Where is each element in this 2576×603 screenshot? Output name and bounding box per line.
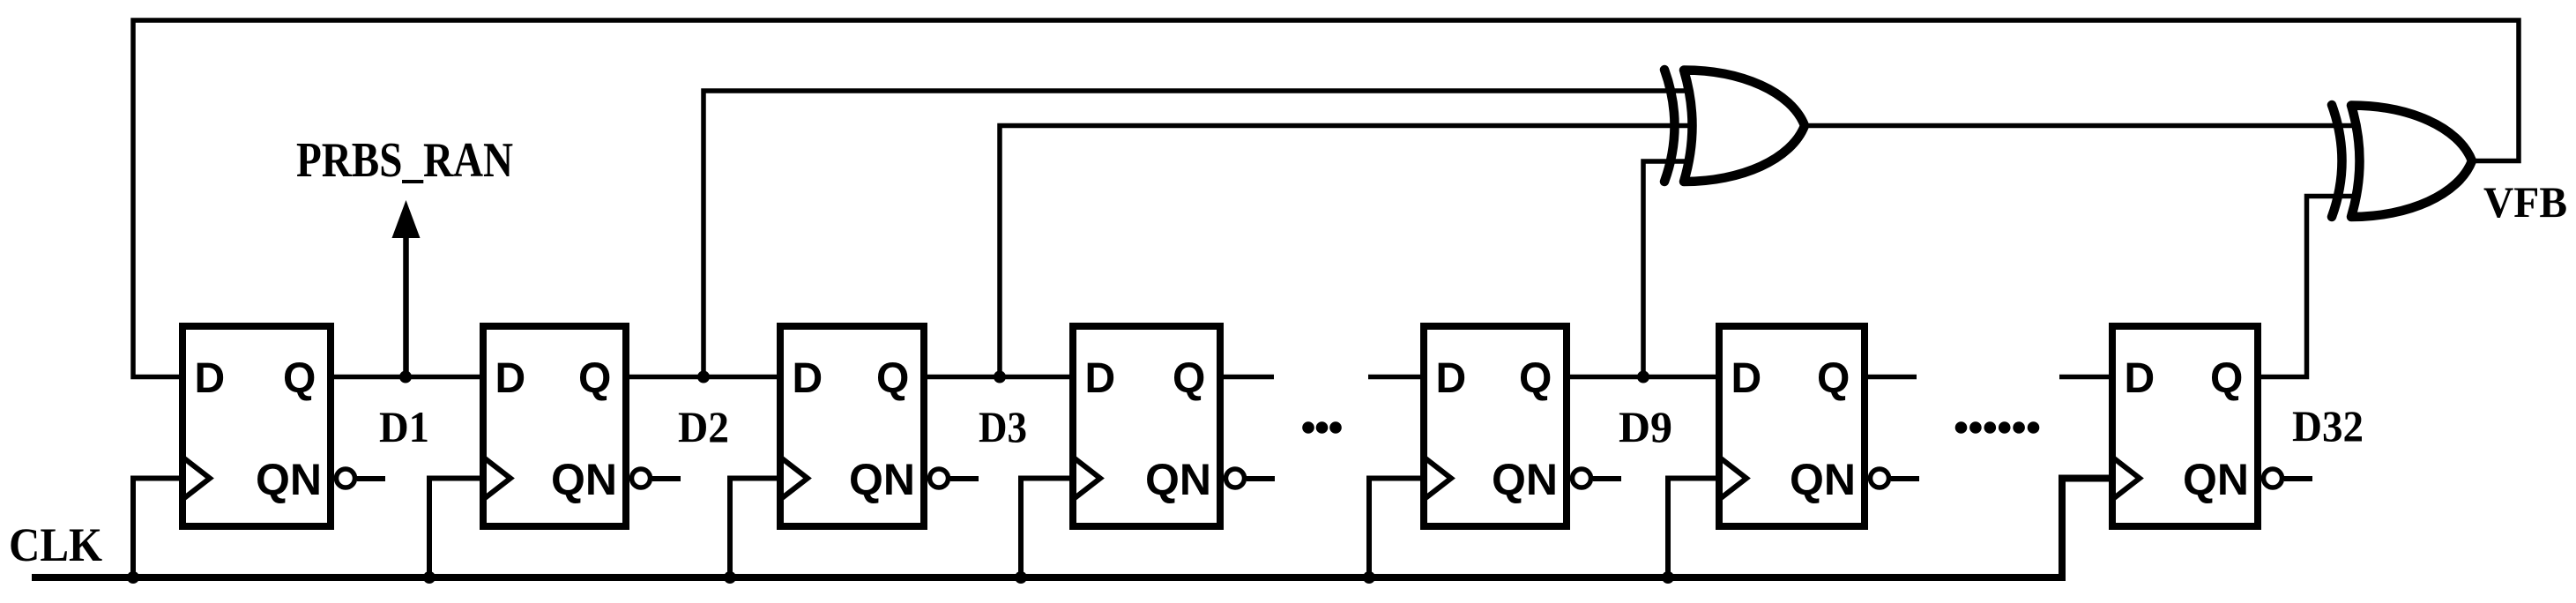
wire: FF7 Q up to XOR2 lower input (net D32): [2258, 197, 2364, 377]
XOR gate U1 body: [1684, 71, 1805, 182]
wire: node D3 tap up to XOR1 input 2: [1000, 126, 1701, 377]
wire: CLK branch to FF6 clock: [1668, 479, 1721, 578]
wire: CLK branch to FF5 clock: [1369, 479, 1426, 578]
wire: node D9 tap up to XOR1 input 3: [1643, 161, 1696, 377]
svg-text:QN: QN: [551, 455, 617, 504]
FF5 QN output stub: [1593, 476, 1621, 481]
svg-text:VFB: VFB: [2483, 177, 2567, 227]
XOR gate U1 input double-arc: [1664, 70, 1675, 182]
wire: XOR1 output to XOR2 upper input: [1801, 123, 2364, 129]
svg-text:D1: D1: [379, 402, 429, 451]
svg-text:D: D: [495, 355, 526, 402]
junction dot CLK junction FF4: [1015, 571, 1027, 584]
wire: FF1 Q to FF2 D (node D1): [331, 375, 483, 380]
D flip-flop FF1: [182, 326, 385, 526]
svg-text:D: D: [195, 355, 226, 402]
XOR gate U2 body: [2351, 106, 2472, 218]
D flip-flop FF4: [1073, 326, 1275, 526]
D flip-flop FF6: [1719, 326, 1919, 526]
svg-text:CLK: CLK: [9, 518, 102, 571]
wire: CLK bus along the bottom, turning up into FF7 clock: [32, 479, 2114, 578]
FF6 QN inversion bubble: [1871, 469, 1889, 488]
svg-text:PRBS_RAN: PRBS_RAN: [296, 133, 513, 188]
wire: CLK branch to FF4 clock: [1021, 479, 1075, 578]
FF1 QN output stub: [357, 476, 385, 481]
XOR gate U2 input double-arc: [2332, 105, 2342, 217]
wire: FF3 Q to FF4 D (node D3): [924, 375, 1073, 380]
wire: FF4 Q output stub: [1220, 375, 1274, 380]
wire: FF7 D input stub: [2059, 375, 2112, 380]
junction dot node D2: [697, 371, 710, 383]
wire: feedback loop from XOR2 output over the top to FF1 D input: [133, 20, 2519, 377]
svg-text:QN: QN: [849, 455, 915, 504]
svg-text:Q: Q: [1817, 355, 1850, 402]
svg-text:D2: D2: [678, 402, 729, 451]
junction dot CLK junction FF1: [127, 571, 139, 584]
svg-text:QN: QN: [2183, 455, 2249, 504]
wire: FF5 D input stub: [1368, 375, 1424, 380]
svg-text:Q: Q: [1173, 355, 1205, 402]
wire: node D2 tap up to XOR1 input 1: [704, 91, 1696, 377]
FF3 clock input triangle: [782, 458, 808, 498]
FF2 QN output stub: [652, 476, 681, 481]
svg-text:QN: QN: [1492, 455, 1558, 504]
wire: CLK branch to FF2 clock: [429, 479, 485, 578]
FF5 QN inversion bubble: [1573, 469, 1591, 488]
svg-text:Q: Q: [283, 355, 316, 402]
FF7 QN output stub: [2284, 476, 2312, 481]
FF4 QN inversion bubble: [1226, 469, 1245, 488]
svg-text:Q: Q: [578, 355, 611, 402]
svg-text:Q: Q: [2210, 355, 2243, 402]
svg-text:D: D: [1436, 355, 1467, 402]
FF1 QN inversion bubble: [337, 469, 355, 488]
FF7 QN inversion bubble: [2264, 469, 2282, 488]
FF3 QN inversion bubble: [930, 469, 949, 488]
wire: CLK branch to FF1 clock: [133, 479, 184, 578]
FF5 clock input triangle: [1426, 458, 1451, 498]
svg-text:D9: D9: [1619, 402, 1672, 451]
svg-text:QN: QN: [1790, 455, 1856, 504]
svg-text:Q: Q: [1519, 355, 1552, 402]
FF6 QN output stub: [1891, 476, 1919, 481]
svg-text:QN: QN: [1145, 455, 1211, 504]
ellipsis between FF4 and FF5: [1302, 421, 1342, 434]
svg-text:D: D: [1731, 355, 1762, 402]
svg-text:D: D: [1085, 355, 1116, 402]
FF1 clock input triangle: [184, 458, 210, 498]
XOR gate U1 (3-input): [1664, 70, 1805, 182]
FF2 QN inversion bubble: [632, 469, 651, 488]
junction dot CLK junction FF5: [1363, 571, 1375, 584]
wire: FF2 Q to FF3 D (node D2): [626, 375, 780, 380]
D flip-flop FF3: [780, 326, 979, 526]
svg-text:QN: QN: [256, 455, 322, 504]
FF6 clock input triangle: [1721, 458, 1746, 498]
ellipsis between FF6 and FF7: [1955, 421, 2040, 434]
XOR gate U2 (2-input): [2332, 105, 2472, 217]
FF4 QN output stub: [1247, 476, 1275, 481]
junction dot CLK junction FF2: [423, 571, 436, 584]
wire: PRBS_RAN output arrow from node D1: [392, 200, 421, 377]
svg-text:D: D: [793, 355, 823, 402]
FF3 QN output stub: [950, 476, 979, 481]
FF2 clock input triangle: [485, 458, 510, 498]
wire: FF5 Q to FF6 D (node D9): [1567, 375, 1719, 380]
wire: CLK branch to FF3 clock: [730, 479, 782, 578]
svg-text:D32: D32: [2292, 401, 2364, 450]
wire: FF6 Q output stub: [1865, 375, 1917, 380]
D flip-flop FF5: [1424, 326, 1621, 526]
junction dot CLK junction FF6: [1662, 571, 1674, 584]
junction dot node D1: [399, 371, 412, 383]
D flip-flop FF7: [2112, 326, 2312, 526]
junction dot node D3: [994, 371, 1006, 383]
svg-text:D3: D3: [979, 402, 1027, 451]
junction dot CLK junction FF3: [724, 571, 736, 584]
FF4 clock input triangle: [1075, 458, 1100, 498]
FF7 clock input triangle: [2114, 458, 2140, 498]
svg-text:D: D: [2125, 355, 2155, 402]
junction dot node D9: [1637, 371, 1649, 383]
D flip-flop FF2: [483, 326, 681, 526]
svg-text:Q: Q: [876, 355, 909, 402]
